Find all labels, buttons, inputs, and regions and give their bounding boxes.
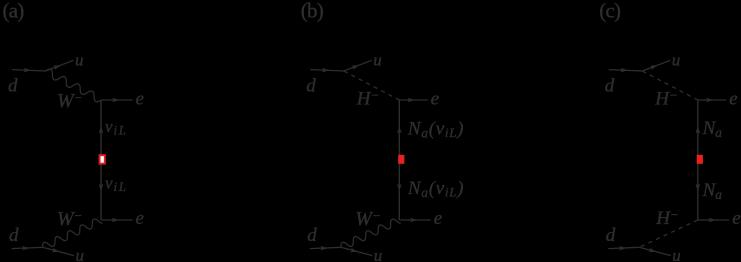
svg-text:e: e <box>136 208 144 229</box>
svg-text:W−: W− <box>57 90 82 112</box>
boson: W- wavy line (top) <box>46 69 102 102</box>
svg-text:Na: Na <box>702 118 723 140</box>
svg-text:e: e <box>732 208 740 229</box>
wire: incoming d quark line (top) <box>609 70 643 71</box>
arrow up on propagator (upper) <box>397 126 402 134</box>
arrow on bottom e line <box>410 218 417 223</box>
svg-text:H−: H− <box>356 88 380 110</box>
wire: outgoing u quark line (top) <box>46 60 74 71</box>
blob: Majorana mass insertion (red) <box>398 155 404 164</box>
svg-text:νiL: νiL <box>105 117 126 138</box>
wire: outgoing electron line (bottom) <box>698 219 730 221</box>
wire: outgoing electron line (bottom) <box>101 219 133 221</box>
blob: Majorana mass insertion (red) <box>100 155 105 163</box>
svg-text:Na(νiL): Na(νiL) <box>407 178 464 200</box>
propagator: internal neutrino line <box>697 100 699 220</box>
wire: outgoing u quark line (bottom) <box>43 247 75 255</box>
wire: outgoing electron line (top) <box>101 99 133 101</box>
propagator: internal neutrino line <box>398 100 400 220</box>
propagator: internal neutrino line <box>100 100 102 220</box>
arrow on bottom e line <box>709 218 716 223</box>
arrow on top d line <box>620 68 627 73</box>
arrow on bottom u line <box>350 248 358 252</box>
wire: incoming d quark line (bottom) <box>608 247 639 248</box>
boson: H- dashed line (top) <box>642 71 698 100</box>
wire: incoming d quark line (bottom) <box>12 247 43 248</box>
boson: W- wavy line (bottom) <box>341 219 401 247</box>
arrow on bottom d line <box>619 246 626 251</box>
blob: Majorana mass insertion (red) <box>697 155 703 164</box>
svg-text:u: u <box>373 51 382 70</box>
svg-text:d: d <box>9 225 19 246</box>
arrow on bottom u line <box>649 248 657 252</box>
boson: H- dashed line (bottom) <box>639 220 698 247</box>
svg-text:e: e <box>431 89 439 110</box>
boson: H- dashed line (top) <box>344 71 400 100</box>
arrow on bottom u line <box>52 248 60 252</box>
wire: outgoing u quark line (bottom) <box>341 247 373 255</box>
wire: incoming d quark line (top) <box>12 70 46 71</box>
arrow on top e line <box>706 98 713 103</box>
arrow on top e line <box>112 98 119 103</box>
svg-text:H−: H− <box>655 207 679 229</box>
arrow on bottom d line <box>22 246 29 251</box>
svg-text:u: u <box>374 246 383 262</box>
svg-text:W−: W− <box>57 208 82 230</box>
svg-text:d: d <box>606 225 616 246</box>
arrow down on propagator (lower) <box>397 184 402 192</box>
arrow on top u line <box>53 65 61 70</box>
arrow on top d line <box>322 68 329 73</box>
arrow on bottom e line <box>112 218 119 223</box>
arrow on top e line <box>408 98 415 103</box>
svg-text:d: d <box>306 76 316 97</box>
svg-text:u: u <box>672 51 681 70</box>
boson: W- wavy line (bottom) <box>43 219 103 247</box>
arrow up on propagator (upper) <box>99 126 104 134</box>
wire: incoming d quark line (top) <box>310 70 344 71</box>
arrow on top u line <box>650 65 658 70</box>
svg-text:νiL: νiL <box>105 174 126 195</box>
svg-text:e: e <box>729 89 737 110</box>
wire: outgoing u quark line (bottom) <box>639 247 671 255</box>
wire: outgoing electron line (top) <box>698 99 727 101</box>
arrow down on propagator (lower) <box>696 184 701 192</box>
arrow on bottom d line <box>321 246 328 251</box>
svg-text:u: u <box>75 51 84 70</box>
wire: incoming d quark line (bottom) <box>310 247 341 248</box>
wire: outgoing u quark line (top) <box>344 60 372 71</box>
svg-text:d: d <box>605 76 615 97</box>
arrow up on propagator (upper) <box>696 126 701 134</box>
svg-text:(b): (b) <box>301 0 324 23</box>
svg-text:(c): (c) <box>599 0 621 23</box>
svg-text:H−: H− <box>654 88 678 110</box>
svg-text:Na(νiL): Na(νiL) <box>407 119 464 141</box>
svg-text:e: e <box>434 208 442 229</box>
svg-text:d: d <box>307 225 317 246</box>
arrow on top u line <box>351 65 359 70</box>
arrow down on propagator (lower) <box>99 184 104 192</box>
arrow on top d line <box>24 68 31 73</box>
svg-text:u: u <box>672 246 681 262</box>
svg-text:e: e <box>136 89 144 110</box>
svg-text:Na: Na <box>702 180 723 202</box>
wire: outgoing u quark line (top) <box>642 60 670 71</box>
svg-text:W−: W− <box>355 208 380 230</box>
svg-text:d: d <box>8 76 18 97</box>
svg-text:u: u <box>76 246 85 262</box>
svg-text:(a): (a) <box>3 0 25 23</box>
wire: outgoing electron line (bottom) <box>399 219 431 221</box>
wire: outgoing electron line (top) <box>399 99 428 101</box>
